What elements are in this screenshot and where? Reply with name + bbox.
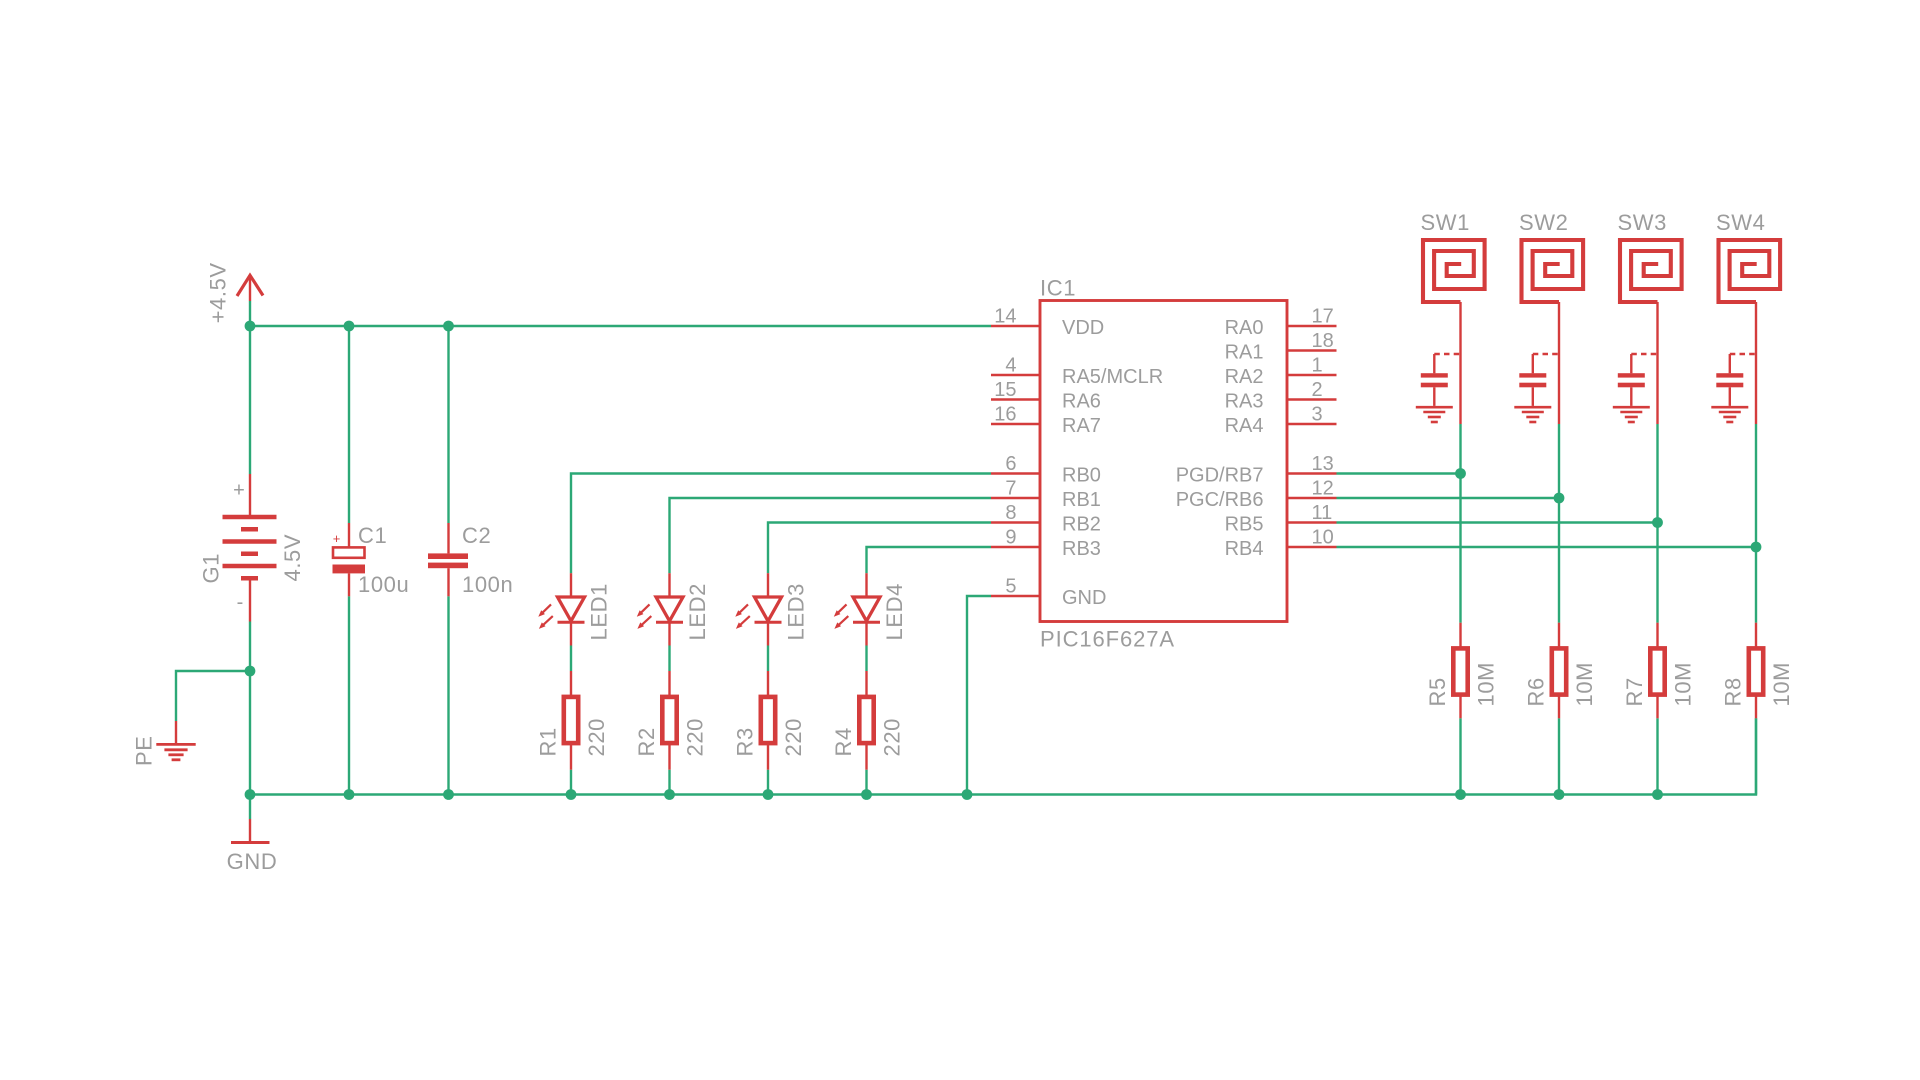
svg-text:R7: R7: [1622, 677, 1647, 706]
svg-text:7: 7: [1005, 478, 1016, 500]
svg-text:IC1: IC1: [1040, 276, 1076, 301]
wire PE branch: [176, 671, 250, 721]
LED LED3: [735, 573, 781, 645]
svg-text:LED2: LED2: [685, 583, 710, 640]
svg-text:6: 6: [1005, 453, 1016, 475]
node GND bus left junction: [245, 789, 256, 800]
node C2 bottom junction: [443, 789, 454, 800]
svg-text:R8: R8: [1720, 677, 1745, 706]
svg-text:10M: 10M: [1474, 662, 1499, 707]
node supply junction: [245, 321, 256, 332]
resistor R2: [662, 671, 676, 770]
node R4 bus junction: [861, 789, 872, 800]
svg-text:+: +: [233, 479, 245, 501]
svg-text:220: 220: [584, 718, 609, 757]
wire top VDD bus: [250, 325, 991, 327]
node C1 bottom junction: [344, 789, 355, 800]
svg-text:RB2: RB2: [1062, 514, 1101, 536]
svg-text:R1: R1: [535, 727, 560, 756]
wire bottom GND bus: [250, 718, 1756, 794]
svg-text:12: 12: [1312, 478, 1334, 500]
svg-text:220: 220: [683, 718, 708, 757]
svg-text:5: 5: [1005, 576, 1016, 598]
wire R6 to GND bus: [1558, 718, 1560, 794]
wire IC GND pin to bus: [967, 596, 991, 795]
pin 5 GND: [991, 576, 1106, 610]
svg-text:14: 14: [994, 306, 1016, 328]
svg-text:2: 2: [1312, 379, 1323, 401]
pin 15 RA6: [991, 379, 1101, 413]
svg-text:C1: C1: [358, 523, 387, 548]
pin 11 RB5: [1225, 502, 1337, 536]
wire SW3 column: [1656, 424, 1658, 623]
resistor R4: [859, 671, 873, 770]
LED LED1: [538, 573, 584, 645]
node R2 bus junction: [664, 789, 675, 800]
resistor R3: [761, 671, 775, 770]
svg-text:R4: R4: [831, 727, 856, 756]
wire R7 to GND bus: [1656, 718, 1658, 794]
svg-text:16: 16: [994, 404, 1016, 426]
pin 13 PGD/RB7: [1176, 453, 1337, 487]
wire pin 12 to SW2 column: [1337, 497, 1560, 499]
svg-text:GND: GND: [1062, 587, 1106, 609]
pin 4 RA5/MCLR: [991, 355, 1163, 389]
svg-text:RB1: RB1: [1062, 489, 1101, 511]
wire pin 11 to SW3 column: [1337, 521, 1658, 523]
resistor R1: [564, 671, 578, 770]
LED LED4: [834, 573, 880, 645]
svg-text:R2: R2: [634, 727, 659, 756]
ground GND symbol: [231, 819, 270, 843]
svg-text:9: 9: [1005, 527, 1016, 549]
node C2 top junction: [443, 321, 454, 332]
svg-text:RA6: RA6: [1062, 391, 1101, 413]
pin 17 RA0: [1225, 306, 1337, 340]
node R6 bus junction: [1554, 789, 1565, 800]
node C1 top junction: [344, 321, 355, 332]
wire C1 bottom: [348, 596, 350, 794]
wire R5 to GND bus: [1459, 718, 1461, 794]
svg-text:PIC16F627A: PIC16F627A: [1040, 627, 1175, 652]
svg-text:1: 1: [1312, 355, 1323, 377]
wire battery top: [249, 326, 251, 474]
node SW3 junction: [1652, 517, 1663, 528]
svg-text:+4.5V: +4.5V: [205, 262, 230, 323]
svg-text:RA5/MCLR: RA5/MCLR: [1062, 366, 1163, 388]
node R5 bus junction: [1455, 789, 1466, 800]
pin 14 VDD: [991, 306, 1104, 340]
resistor R7: [1650, 623, 1664, 719]
wire C2 top: [447, 326, 449, 523]
wire GND symbol stub: [249, 795, 251, 820]
svg-text:8: 8: [1005, 502, 1016, 524]
svg-text:11: 11: [1312, 502, 1333, 524]
ground PE symbol: [156, 721, 195, 760]
svg-text:LED3: LED3: [783, 583, 808, 640]
pin 8 RB2: [991, 502, 1101, 536]
wire SW4 column: [1755, 424, 1757, 623]
svg-text:LED4: LED4: [882, 583, 907, 640]
svg-text:13: 13: [1312, 453, 1334, 475]
svg-text:LED1: LED1: [586, 583, 611, 640]
svg-text:4.5V: 4.5V: [280, 534, 305, 582]
wire R8 to GND bus corner: [1755, 718, 1757, 794]
capacitor parasitic SW4: [1711, 354, 1756, 422]
wire RB2 to LED3: [768, 523, 991, 574]
pin 18 RA1: [1225, 330, 1337, 364]
svg-text:15: 15: [994, 379, 1016, 401]
pin 9 RB3: [991, 527, 1101, 561]
svg-text:3: 3: [1312, 404, 1323, 426]
wire C1 top: [348, 326, 350, 523]
pin 12 PGC/RB6: [1176, 478, 1337, 512]
resistor R8: [1749, 623, 1763, 719]
svg-text:PGC/RB6: PGC/RB6: [1176, 489, 1264, 511]
svg-text:-: -: [237, 592, 244, 614]
switch SW2 spiral pad: [1522, 240, 1584, 424]
switch SW3 spiral pad: [1620, 240, 1682, 424]
svg-text:18: 18: [1312, 330, 1334, 352]
node R7 bus junction: [1652, 789, 1663, 800]
wire LED4 cathode to R4: [865, 646, 867, 672]
wire R3 to GND bus: [767, 770, 769, 795]
svg-text:10: 10: [1312, 527, 1334, 549]
node SW2 junction: [1554, 493, 1565, 504]
pin 3 RA4: [1225, 404, 1337, 438]
svg-text:R5: R5: [1425, 677, 1450, 706]
wire SW1 column: [1459, 424, 1461, 623]
svg-text:17: 17: [1312, 306, 1334, 328]
svg-text:RA7: RA7: [1062, 415, 1101, 437]
node R3 bus junction: [763, 789, 774, 800]
wire R4 to GND bus: [865, 770, 867, 795]
pin 16 RA7: [991, 404, 1101, 438]
switch SW1 spiral pad: [1423, 240, 1485, 424]
svg-text:RA2: RA2: [1225, 366, 1264, 388]
wire battery bottom to GND bus: [249, 622, 251, 795]
svg-text:4: 4: [1005, 355, 1016, 377]
node PE junction: [245, 666, 256, 677]
capacitor C2: [428, 523, 468, 596]
svg-text:PGD/RB7: PGD/RB7: [1176, 465, 1264, 487]
svg-text:RA0: RA0: [1225, 317, 1264, 339]
capacitor parasitic SW1: [1416, 354, 1461, 422]
node SW1 junction: [1455, 468, 1466, 479]
wire R2 to GND bus: [668, 770, 670, 795]
svg-text:RA3: RA3: [1225, 391, 1264, 413]
wire LED2 cathode to R2: [668, 646, 670, 672]
svg-text:GND: GND: [227, 849, 278, 874]
IC U1 box: [1040, 301, 1287, 622]
svg-text:100u: 100u: [358, 572, 409, 597]
wire LED1 cathode to R1: [570, 646, 572, 672]
node R1 bus junction: [566, 789, 577, 800]
wire +4.5V stem: [249, 301, 251, 326]
svg-text:SW3: SW3: [1618, 210, 1667, 235]
svg-text:R3: R3: [732, 727, 757, 756]
node SW4 junction: [1751, 542, 1762, 553]
svg-text:C2: C2: [462, 523, 491, 548]
wire pin 10 to SW4 column: [1337, 546, 1757, 548]
capacitor parasitic SW3: [1613, 354, 1658, 422]
svg-text:220: 220: [781, 718, 806, 757]
pin 10 RB4: [1225, 527, 1337, 561]
svg-text:RA1: RA1: [1225, 342, 1264, 364]
LED LED2: [637, 573, 683, 645]
svg-text:10M: 10M: [1572, 662, 1597, 707]
resistor R6: [1552, 623, 1566, 719]
svg-text:SW1: SW1: [1421, 210, 1470, 235]
supply +4.5V arrow: [237, 275, 263, 301]
svg-text:VDD: VDD: [1062, 317, 1104, 339]
svg-text:100n: 100n: [462, 572, 513, 597]
capacitor C1: [333, 523, 366, 596]
wire R1 to GND bus: [570, 770, 572, 795]
pin 6 RB0: [991, 453, 1101, 487]
battery G1: [223, 474, 277, 622]
wire LED3 cathode to R3: [767, 646, 769, 672]
svg-text:RB5: RB5: [1225, 514, 1264, 536]
wire RB0 to LED1: [571, 474, 991, 574]
wire pin 13 to SW1 column: [1337, 472, 1461, 474]
switch SW4 spiral pad: [1719, 240, 1781, 424]
svg-text:R6: R6: [1523, 677, 1548, 706]
svg-text:220: 220: [880, 718, 905, 757]
pin 7 RB1: [991, 478, 1101, 512]
svg-text:10M: 10M: [1671, 662, 1696, 707]
svg-text:RB4: RB4: [1225, 538, 1264, 560]
svg-text:SW2: SW2: [1519, 210, 1568, 235]
svg-text:SW4: SW4: [1716, 210, 1765, 235]
pin 1 RA2: [1225, 355, 1337, 389]
pin 2 RA3: [1225, 379, 1337, 413]
resistor R5: [1453, 623, 1467, 719]
svg-text:PE: PE: [132, 735, 157, 766]
wire RB3 to LED4: [867, 547, 992, 573]
svg-text:RB0: RB0: [1062, 465, 1101, 487]
svg-text:+: +: [333, 531, 341, 546]
wire C2 bottom: [447, 596, 449, 794]
svg-text:RB3: RB3: [1062, 538, 1101, 560]
wire RB1 to LED2: [670, 498, 992, 573]
node GND wire bus junction: [962, 789, 973, 800]
wire SW2 column: [1558, 424, 1560, 623]
svg-text:10M: 10M: [1769, 662, 1794, 707]
svg-text:G1: G1: [199, 553, 224, 584]
svg-text:RA4: RA4: [1225, 415, 1264, 437]
capacitor parasitic SW2: [1514, 354, 1559, 422]
